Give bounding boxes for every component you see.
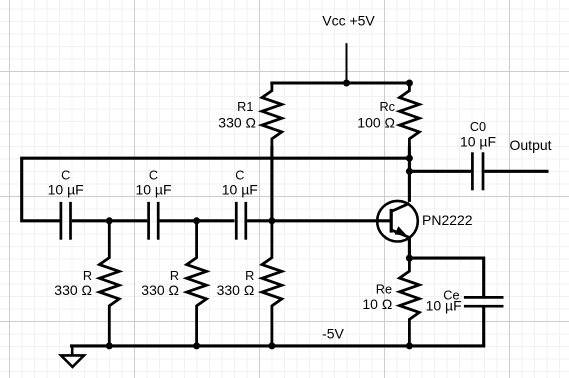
svg-text:Output: Output (510, 137, 552, 153)
svg-text:PN2222: PN2222 (422, 212, 473, 228)
node Re bottom junction (406, 342, 413, 349)
svg-text:10 µF: 10 µF (222, 181, 258, 197)
wire Ce bottom lead (482, 306, 485, 346)
svg-text:C0: C0 (470, 120, 486, 134)
wire feedback from collector to left side (22, 158, 410, 221)
wire output right (484, 170, 548, 173)
svg-text:Re: Re (376, 282, 392, 296)
transistor emitter diagonal (392, 230, 409, 237)
node output junction (406, 168, 413, 175)
svg-text:Vcc +5V: Vcc +5V (322, 12, 375, 28)
svg-text:-5V: -5V (322, 326, 344, 342)
wire cap3 to base (247, 219, 390, 222)
wire cap1 to cap2 (72, 219, 148, 222)
transistor emitter arrow (395, 226, 408, 236)
net Vcc terminal stub (346, 43, 348, 83)
node R1 bottom junction (106, 342, 113, 349)
node collector-feedback junction (406, 155, 413, 162)
wire base lead inside transistor (377, 219, 391, 222)
wire top rail (272, 81, 410, 84)
capacitor C (first) (61, 202, 71, 240)
ground triangle (61, 355, 84, 367)
svg-text:Rc: Rc (379, 100, 395, 114)
wire collector vertical (408, 146, 411, 202)
svg-text:10 Ω: 10 Ω (362, 296, 392, 312)
node base junction (268, 217, 275, 224)
wire bottom rail (72, 344, 484, 347)
svg-text:10 µF: 10 µF (135, 181, 171, 197)
svg-text:10 µF: 10 µF (48, 181, 84, 197)
svg-text:330 Ω: 330 Ω (54, 282, 92, 298)
node rail-Rc junction (406, 80, 413, 87)
capacitor C (third) (236, 202, 246, 240)
wire cap2 to cap3 (160, 219, 235, 222)
svg-text:10 µF: 10 µF (426, 298, 462, 314)
svg-text:330 Ω: 330 Ω (218, 114, 256, 130)
svg-text:100 Ω: 100 Ω (357, 114, 395, 130)
node cap2-R junction (193, 217, 200, 224)
wire emitter to Ce branch (409, 258, 483, 296)
transistor collector diagonal (392, 203, 409, 211)
resistor R (second) (187, 221, 207, 346)
resistor R (third) (262, 221, 282, 346)
capacitor C (second) (149, 202, 159, 240)
resistor Rc (400, 83, 420, 146)
resistor Re (400, 258, 420, 346)
resistor R (first) (99, 221, 119, 346)
wire emitter vertical (408, 237, 411, 258)
node cap1-R junction (106, 217, 113, 224)
capacitor Ce (464, 297, 504, 306)
svg-text:10 µF: 10 µF (460, 133, 496, 149)
capacitor C0 (472, 152, 483, 190)
transistor Q1 PN2222 circle (377, 201, 418, 242)
svg-text:R1: R1 (237, 100, 253, 114)
node emitter junction (406, 255, 413, 262)
node R3 bottom junction (268, 342, 275, 349)
svg-text:330 Ω: 330 Ω (141, 282, 179, 298)
wire output tap (409, 170, 471, 173)
ground stem (71, 345, 74, 356)
transistor base bar (390, 209, 393, 233)
svg-text:330 Ω: 330 Ω (217, 282, 255, 298)
wire R1 bottom lead through crossover (270, 146, 273, 221)
resistor R1 (262, 83, 282, 146)
node R2 bottom junction (193, 342, 200, 349)
node Vcc junction (343, 80, 350, 87)
